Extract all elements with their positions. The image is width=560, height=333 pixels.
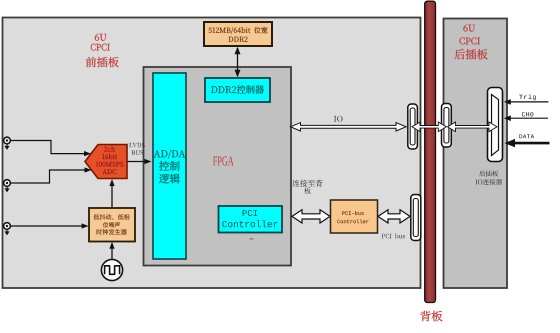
- rear connector label 后插板IO连接器: [475, 171, 502, 185]
- wire J2 to ADC: [10, 167, 91, 183]
- FPGA label: [213, 156, 234, 165]
- DDR2 controller block: [205, 78, 270, 102]
- wire backplane to rear IO connector: [448, 122, 498, 132]
- input connector J2: [4, 180, 11, 193]
- DDR2 memory box 512MB/64bit: [204, 22, 272, 46]
- crystal oscillator: [101, 259, 122, 280]
- input connector J3: [4, 223, 11, 236]
- front board 6U CPCI: [3, 18, 421, 289]
- wire J1 to ADC: [10, 141, 91, 157]
- clock generator box: [89, 208, 135, 242]
- wire across backplane: [412, 122, 446, 132]
- block arrow FPGA to PCI-bus controller: [292, 210, 330, 223]
- small mark below PCI controller: [250, 238, 254, 240]
- wire ADC to AD/DA logic: [128, 159, 152, 164]
- input connector J1: [4, 137, 11, 150]
- rear board 6U CPCI: [444, 19, 508, 289]
- PCI controller block: [219, 206, 283, 233]
- front board title 6U CPCI 前插板: [86, 34, 119, 67]
- backplane PCI connector J5: [411, 195, 421, 241]
- IO label: [334, 116, 343, 122]
- backplane connector J4 left: [408, 104, 418, 149]
- LVDS BUS label: [129, 143, 145, 155]
- ADC 2ch 16bit 100MSPS: [85, 145, 127, 179]
- rear board title 6U CPCI 后插板: [455, 25, 488, 60]
- wire J3 to clock generator: [10, 223, 88, 228]
- backplane label 背板: [420, 311, 442, 322]
- backplane connector J6 right: [442, 104, 452, 148]
- wire oscillator to clock box: [109, 242, 114, 259]
- memory bus wire (bidirectional): [235, 47, 241, 77]
- AD/DA control logic block: [153, 73, 186, 259]
- PCI-bus controller box: [331, 200, 378, 233]
- block arrow PCI-bus controller to backplane connector: [378, 210, 410, 223]
- wire clock box to ADC: [109, 179, 114, 208]
- Trig signal wire: [504, 94, 549, 104]
- rear board IO connector: [488, 88, 503, 162]
- FPGA box U1: [144, 67, 292, 266]
- CH0 signal wire: [504, 112, 548, 121]
- DATA signal wire: [505, 134, 550, 147]
- PCI bus label: [382, 233, 405, 238]
- IO bus arrow FPGA to backplane: [291, 123, 407, 131]
- label 连接至背板: [292, 180, 322, 194]
